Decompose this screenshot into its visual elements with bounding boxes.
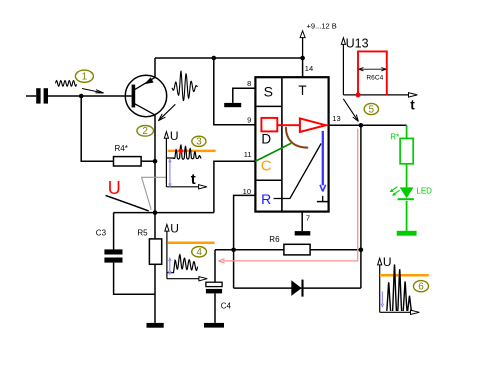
wire diode row [234, 287, 361, 289]
ground R5 [147, 323, 164, 328]
svg-text:U: U [170, 129, 179, 143]
svg-text:11: 11 [244, 150, 252, 159]
node R6 right [359, 248, 364, 253]
wire collector down [154, 115, 156, 213]
svg-text:U: U [170, 222, 179, 236]
transistor collector [135, 104, 155, 115]
svg-text:3: 3 [196, 137, 202, 148]
wire C4 to ground [214, 293, 216, 323]
graph 3 waveform [167, 145, 202, 159]
svg-text:9: 9 [247, 116, 251, 125]
annotation arrow 1 [82, 89, 104, 94]
label 5 circled [364, 103, 378, 115]
IC R cell divider [255, 179, 282, 181]
svg-text:R*: R* [390, 133, 399, 142]
svg-text:4: 4 [196, 247, 202, 258]
transistor emitter with arrow [135, 77, 156, 89]
node detector [153, 210, 158, 215]
graph 4 U axis [165, 222, 179, 279]
label 2 circled [137, 126, 154, 138]
transistor base bar [132, 85, 136, 108]
D input red square [261, 118, 277, 131]
label 3 circled [192, 136, 206, 148]
svg-text:5: 5 [369, 104, 375, 115]
resistor R5 [137, 229, 161, 265]
svg-text:+9...12 В: +9...12 В [307, 22, 337, 31]
ground LED green [397, 231, 417, 236]
ground pin 7 [295, 231, 311, 235]
svg-text:D: D [261, 132, 271, 147]
graph 4 blue measure arrow [169, 258, 171, 274]
graph 5 red dot [356, 92, 361, 97]
red feedback wire [218, 129, 357, 263]
node rail pin9 branch [212, 56, 217, 61]
svg-text:S: S [264, 84, 273, 100]
comparator triangle [300, 118, 326, 132]
label 1 circled [75, 70, 93, 83]
svg-text:R: R [261, 191, 271, 207]
red link D to comparator [277, 124, 300, 126]
wire R6 right [310, 249, 361, 251]
wire C4 drop [214, 250, 216, 282]
svg-text:6: 6 [418, 282, 424, 293]
svg-text:8: 8 [247, 79, 251, 88]
graph 6 blue measure arrow [381, 292, 383, 307]
wire pin 9 branch [214, 58, 256, 125]
svg-text:R6C4: R6C4 [366, 75, 383, 82]
annotation arrow 5 [343, 99, 358, 122]
IC S cell divider [255, 105, 282, 107]
brown discharge curve [286, 127, 308, 148]
svg-text:U: U [108, 178, 121, 198]
graph 6 t axis [380, 310, 420, 314]
annotation arrow 2 [158, 104, 175, 120]
wire R4 to collector [141, 160, 155, 162]
graph 5 U axis [341, 37, 368, 95]
wire emitter to rail [154, 58, 156, 77]
power supply arrow +9..12V [300, 22, 337, 58]
wire pin 13 [329, 114, 361, 125]
svg-text:14: 14 [305, 64, 313, 73]
graph 4 t axis [167, 277, 207, 281]
resistor R6 [269, 235, 310, 255]
wire pin 11 branch [214, 150, 256, 212]
graph 3 red dot [179, 149, 184, 154]
wire pin 7 to ground [302, 212, 310, 232]
svg-text:R4*: R4* [115, 144, 128, 153]
wire input to base [48, 95, 132, 97]
graph 5 red pulse [358, 51, 387, 95]
svg-text:U13: U13 [346, 37, 369, 51]
graph 3 blue measure arrow [169, 159, 171, 186]
label 4 circled [192, 247, 207, 259]
wire right vertical [360, 125, 362, 288]
svg-text:T: T [298, 83, 306, 98]
resistor R* green [390, 133, 413, 164]
top rail wire [155, 57, 303, 59]
wire R6 left [215, 249, 284, 251]
svg-text:t: t [191, 171, 196, 188]
svg-text:U: U [383, 255, 392, 269]
svg-text:C4: C4 [221, 301, 232, 310]
wire C3 drop [113, 213, 115, 250]
annotation squiggle signal 1 [56, 81, 77, 87]
capacitor input coupling [36, 88, 48, 103]
red comparator output [326, 124, 329, 126]
graph 3 U axis [164, 129, 178, 187]
ground C4 [204, 323, 224, 328]
node R4 collector [153, 159, 158, 164]
LED symbol [398, 187, 414, 200]
reset diagonal line [274, 144, 322, 199]
node pin 13 [359, 123, 364, 128]
svg-text:R5: R5 [137, 229, 148, 238]
grey leader lines [142, 177, 167, 209]
wire R5 to ground [154, 264, 156, 323]
graph 3 orange threshold [168, 150, 216, 153]
wire pin13 to LED branch [361, 124, 407, 126]
graph 6 needle pulses [387, 265, 412, 311]
capacitor C3 [96, 229, 123, 263]
svg-text:C: C [261, 157, 272, 174]
svg-text:C3: C3 [96, 229, 107, 238]
green wire LED to ground [406, 201, 408, 231]
label 6 circled [414, 281, 429, 293]
node input junction [79, 94, 84, 99]
svg-text:t: t [410, 98, 415, 113]
svg-text:LED: LED [416, 187, 432, 196]
wire pin 14 [303, 58, 314, 77]
resistor R4 [114, 144, 142, 166]
graph 6 U axis [378, 255, 392, 312]
IC U1 body [255, 77, 328, 211]
green wire R* to LED [406, 164, 408, 188]
svg-text:1: 1 [82, 72, 88, 83]
svg-text:13: 13 [332, 114, 340, 123]
wire pin 10 branch [234, 187, 256, 288]
diode VD1 [291, 280, 302, 297]
node R6 pin10 [231, 248, 236, 253]
wire node row [114, 212, 214, 214]
svg-text:R6: R6 [269, 235, 280, 244]
wire C3 bottom [114, 263, 155, 295]
wire junction to R4 [81, 96, 113, 161]
svg-text:10: 10 [243, 187, 251, 196]
graph 6 orange threshold [380, 274, 429, 277]
IC divider [281, 77, 283, 211]
graph 4 waveform [167, 255, 198, 273]
green timing line [255, 143, 291, 161]
node rail supply [300, 56, 305, 61]
wire R5 top [154, 213, 156, 239]
svg-text:2: 2 [142, 126, 148, 137]
LED light arrows [390, 187, 400, 196]
graph 5 t axis [343, 93, 417, 113]
internal common symbol [317, 196, 329, 202]
svg-text:7: 7 [306, 213, 310, 222]
capacitor C4 [206, 282, 232, 310]
graph 5 width arrow R6C4 [359, 68, 386, 82]
wire pin 8 to ground [233, 79, 256, 103]
transistor VT1 circle [125, 75, 166, 116]
blue discharge arrow [320, 131, 326, 192]
graph 3 t axis [166, 171, 207, 189]
green wire to R* [406, 125, 408, 138]
ground pin 8 [224, 103, 241, 107]
graph 4 orange threshold [168, 242, 215, 245]
wire input left [26, 95, 36, 97]
annotation AM waveform 2 [172, 71, 197, 100]
pointer line U [106, 195, 149, 211]
